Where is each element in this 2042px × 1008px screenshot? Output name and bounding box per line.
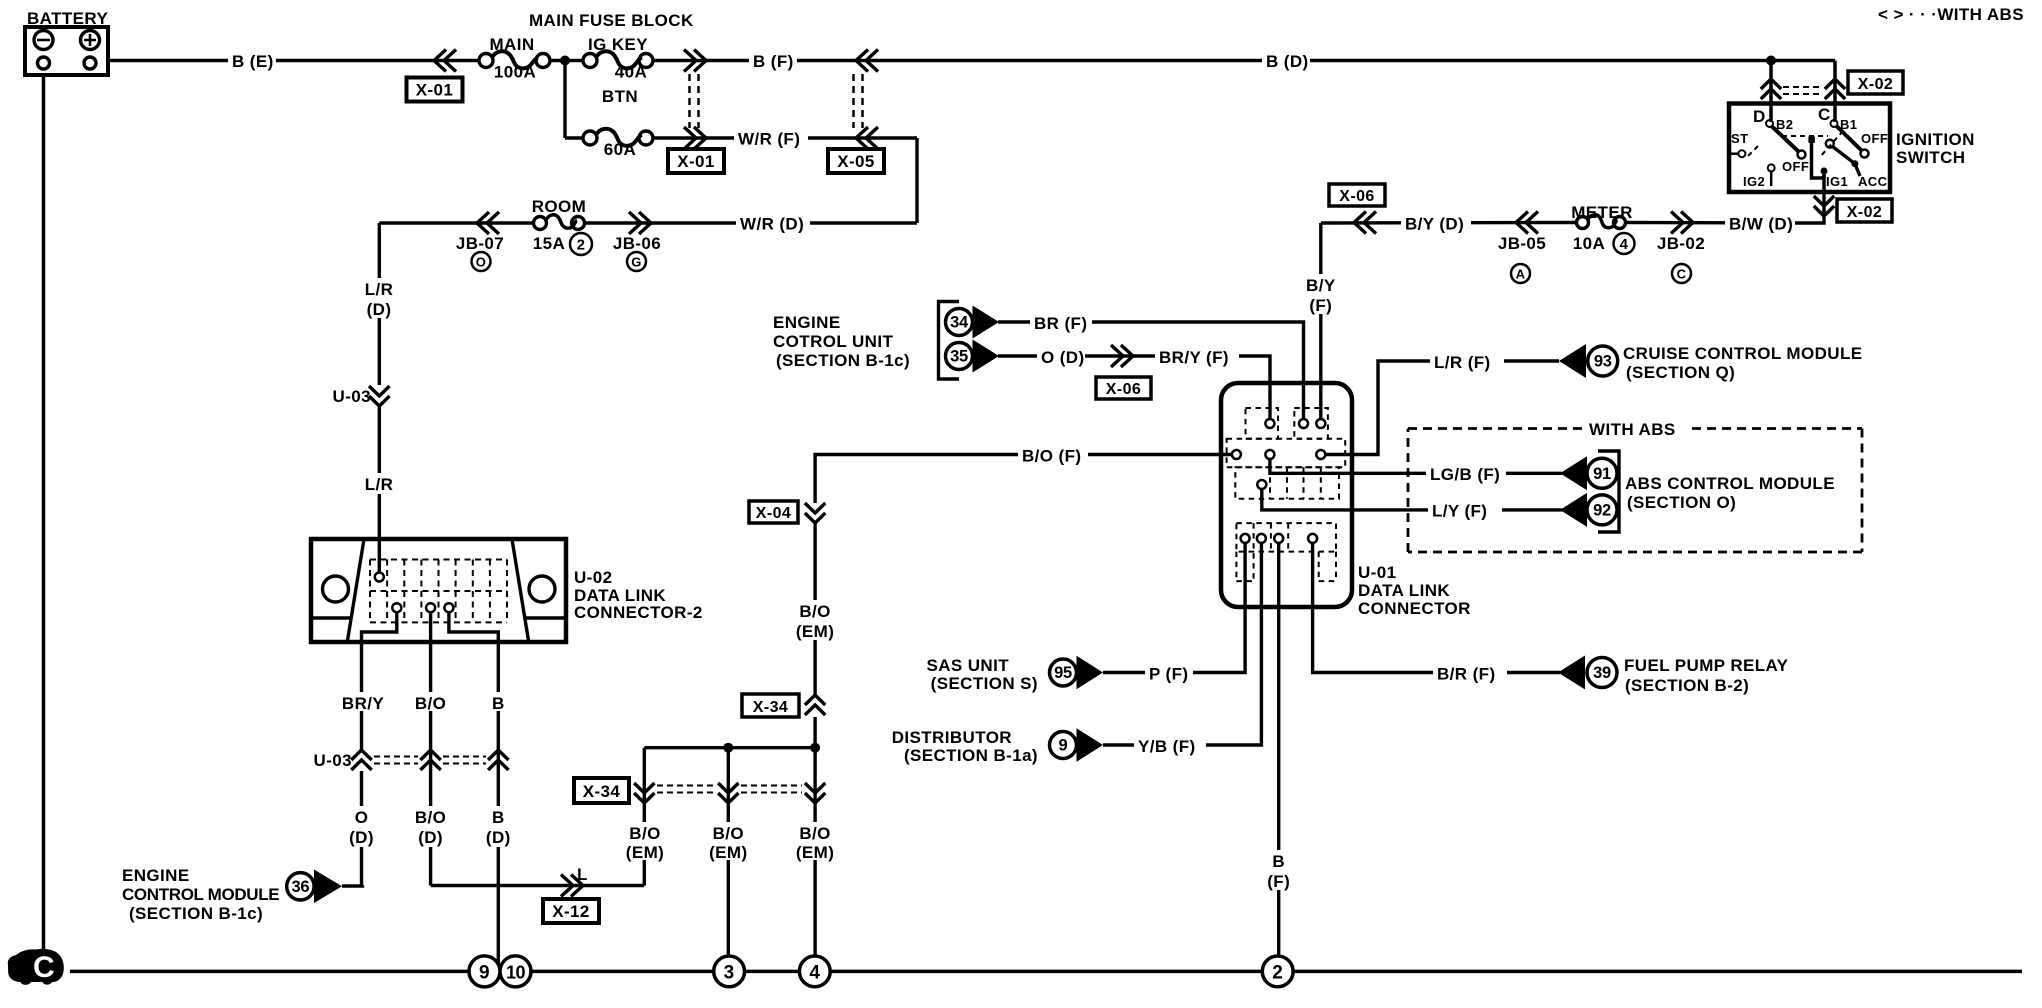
junction node B(D)	[1766, 56, 1776, 66]
svg-text:B: B	[492, 808, 505, 827]
engine cotrol unit labels	[773, 313, 910, 370]
svg-text:(EM): (EM)	[626, 843, 664, 862]
svg-text:40A: 40A	[615, 63, 647, 82]
connector chevron X-04	[802, 503, 828, 523]
svg-text:U-03: U-03	[314, 751, 352, 770]
connector U-02 data link connector-2	[311, 539, 566, 642]
svg-text:L/R: L/R	[365, 475, 394, 494]
svg-text:(SECTION O): (SECTION O)	[1627, 493, 1736, 512]
svg-text:X-34: X-34	[583, 782, 621, 801]
svg-text:IG1: IG1	[1826, 174, 1848, 189]
svg-text:D: D	[1753, 107, 1766, 126]
svg-text:(F): (F)	[1267, 872, 1290, 891]
wire labels O(D) B/O(D) B(D)	[348, 806, 513, 847]
svg-text:34: 34	[950, 314, 969, 332]
U-02 pin B/O	[426, 603, 435, 612]
svg-text:X-01: X-01	[677, 152, 715, 171]
wire L/Y(F)	[1262, 489, 1562, 510]
svg-text:Y/B (F): Y/B (F)	[1138, 737, 1196, 756]
U-02 pin L/R	[378, 539, 381, 572]
wire B(F)/B(D) row to ignition switch	[653, 59, 1835, 62]
label box X-02 upper	[1848, 71, 1903, 94]
svg-text:WITH ABS: WITH ABS	[1589, 420, 1676, 439]
connector chevron X-12	[561, 875, 583, 897]
U-03 dashed links	[374, 757, 486, 764]
connector chevron JB-02	[1671, 212, 1693, 234]
wire B/W corner up to ignition	[1795, 192, 1824, 223]
svg-text:39: 39	[1593, 664, 1611, 682]
wire B(E) battery to main fuse block	[108, 59, 480, 62]
connector chevron X-02 top left	[1761, 79, 1781, 99]
label box X-06 lower	[1096, 377, 1151, 399]
svg-text:ACC: ACC	[1858, 174, 1888, 189]
connector arrow 36 engine control module	[287, 870, 342, 904]
junction node 4	[810, 743, 820, 753]
svg-text:MAIN FUSE BLOCK: MAIN FUSE BLOCK	[529, 11, 694, 30]
wire B column	[497, 642, 500, 970]
with abs dashed box	[1408, 429, 1862, 553]
svg-text:B/O: B/O	[799, 602, 830, 621]
wire label B/O (EM) upper	[796, 600, 834, 641]
fuse IG KEY 40A	[583, 35, 653, 82]
svg-text:9: 9	[479, 963, 490, 984]
circled letter G	[627, 252, 646, 271]
svg-text:U-03: U-03	[333, 387, 371, 406]
wire label B (F)	[749, 50, 797, 71]
svg-text:X-06: X-06	[1339, 188, 1374, 205]
svg-text:DISTRIBUTOR: DISTRIBUTOR	[892, 728, 1012, 747]
label box X-34 lower	[574, 778, 629, 803]
svg-text:(D): (D)	[349, 828, 374, 847]
wire W/R(D) row	[379, 221, 533, 224]
svg-text:B: B	[492, 694, 505, 713]
svg-text:JB-07: JB-07	[456, 234, 504, 253]
svg-text:(SECTION B-2): (SECTION B-2)	[1625, 676, 1749, 695]
connector U-01 data link connector	[1221, 383, 1352, 607]
svg-text:9: 9	[1059, 737, 1068, 755]
svg-text:3: 3	[724, 963, 735, 984]
svg-text:O (D): O (D)	[1041, 348, 1085, 367]
svg-text:4: 4	[1620, 236, 1629, 253]
U-02 labels	[574, 568, 703, 622]
svg-text:BR (F): BR (F)	[1034, 314, 1087, 333]
svg-text:U-01: U-01	[1358, 563, 1396, 582]
svg-text:L/R (F): L/R (F)	[1434, 353, 1491, 372]
U-01 dashed cells	[1227, 408, 1346, 581]
U-02 pin B	[444, 603, 453, 612]
battery	[25, 9, 108, 75]
svg-text:ENGINE: ENGINE	[122, 866, 190, 885]
label box X-12	[543, 899, 599, 923]
wire BR/Y column	[360, 642, 363, 886]
ground circle 9	[469, 956, 500, 987]
svg-text:B/Y: B/Y	[1306, 276, 1336, 295]
U-02 pin BR/Y	[392, 603, 401, 612]
svg-text:L/R: L/R	[365, 280, 394, 299]
svg-text:92: 92	[1593, 502, 1611, 520]
U-01 labels	[1358, 563, 1471, 618]
wire L/R(D) column	[378, 223, 381, 539]
fuse ROOM 15A	[532, 197, 586, 230]
svg-text:(SECTION S): (SECTION S)	[931, 674, 1038, 693]
svg-text:(EM): (EM)	[709, 843, 747, 862]
svg-text:36: 36	[292, 878, 310, 896]
svg-text:ST: ST	[1731, 131, 1748, 146]
svg-text:2: 2	[577, 237, 586, 254]
connector chevron on W/R(F) left	[684, 127, 706, 149]
svg-text:B (E): B (E)	[232, 52, 274, 71]
label box X-05	[828, 149, 884, 173]
svg-text:B/O: B/O	[799, 824, 830, 843]
svg-text:ROOM: ROOM	[532, 197, 586, 216]
svg-text:60A: 60A	[604, 140, 636, 159]
svg-text:OFF: OFF	[1782, 159, 1809, 174]
svg-text:B2: B2	[1776, 117, 1793, 132]
svg-text:FUEL PUMP RELAY: FUEL PUMP RELAY	[1624, 656, 1789, 675]
svg-text:(F): (F)	[1309, 296, 1332, 315]
svg-text:L/Y (F): L/Y (F)	[1432, 502, 1487, 521]
wire label L/R	[360, 473, 400, 494]
ignition switch box	[1729, 104, 1890, 193]
connector chevron X-05 (on B(F))	[856, 50, 878, 72]
X-02 dashed links	[1783, 87, 1822, 94]
svg-text:G: G	[631, 255, 642, 270]
svg-text:(D): (D)	[418, 828, 443, 847]
wire label W/R (D)	[736, 212, 810, 234]
ground circle 2	[1262, 956, 1293, 987]
svg-text:4: 4	[809, 963, 820, 984]
svg-text:B/R (F): B/R (F)	[1437, 665, 1496, 684]
wire label B/Y (D)	[1401, 212, 1471, 234]
junction node 3	[723, 743, 733, 753]
svg-text:93: 93	[1594, 353, 1612, 371]
wire label B (E)	[228, 50, 276, 71]
svg-text:(EM): (EM)	[796, 622, 834, 641]
svg-text:L: L	[577, 865, 588, 884]
wire junction row horizontal	[644, 746, 815, 749]
svg-text:COTROL UNIT: COTROL UNIT	[773, 332, 893, 351]
wire Y/B(F) distributor	[1103, 543, 1261, 745]
connector U-03 upper chevron	[333, 385, 392, 407]
junction node	[560, 56, 570, 66]
svg-text:C: C	[1677, 267, 1687, 282]
U-01 pin third row	[1257, 480, 1266, 489]
connector chevron on W/R(F) right	[856, 127, 878, 149]
U-01 pins top row	[1265, 419, 1274, 428]
svg-text:B/O: B/O	[415, 694, 446, 713]
ground circle 3	[714, 956, 745, 987]
svg-text:B/O: B/O	[415, 808, 446, 827]
svg-text:95: 95	[1054, 664, 1072, 682]
X-05 dashed connector pair	[852, 74, 855, 128]
svg-text:X-02: X-02	[1858, 76, 1893, 93]
wire label B/W (D)	[1725, 212, 1795, 234]
connector arrow 93 cruise	[1559, 344, 1618, 378]
svg-text:B (D): B (D)	[1266, 52, 1309, 71]
svg-text:10: 10	[506, 963, 526, 983]
svg-text:P (F): P (F)	[1149, 665, 1188, 684]
wire P(F) sas	[1103, 543, 1245, 673]
svg-text:35: 35	[950, 348, 968, 366]
svg-text:CRUISE CONTROL MODULE: CRUISE CONTROL MODULE	[1623, 344, 1862, 363]
wire LG/B(F)	[1270, 459, 1562, 473]
label box X-01 left	[407, 78, 463, 102]
connector arrow 9 distributor	[1050, 728, 1104, 761]
svg-text:C: C	[1818, 105, 1831, 124]
wire W/R corner vertical	[915, 138, 918, 223]
fuse METER 10A	[1571, 203, 1633, 229]
svg-text:100A: 100A	[494, 63, 536, 82]
connector chevron X-02 top right	[1825, 79, 1845, 99]
connector chevron X-06 on B/Y(D)	[1354, 212, 1376, 234]
wire B/O(F) row	[815, 455, 1232, 457]
wire O(D) to ECM	[342, 884, 363, 888]
svg-text:B/O (F): B/O (F)	[1022, 447, 1081, 466]
svg-text:X-02: X-02	[1847, 204, 1882, 221]
wire B/R(F) fuel pump	[1313, 543, 1560, 673]
circled number 2	[570, 233, 592, 255]
svg-text:U-02: U-02	[574, 568, 612, 587]
ground bus line	[70, 970, 2022, 974]
svg-text:2: 2	[1272, 963, 1283, 984]
wire L vertical to junction row	[643, 748, 646, 886]
wire B/O(EM) to ground 3	[727, 748, 730, 956]
wire between fuses	[550, 59, 583, 62]
svg-text:(EM): (EM)	[796, 843, 834, 862]
svg-text:A: A	[1516, 267, 1526, 282]
svg-text:(SECTION B-1c): (SECTION B-1c)	[129, 904, 263, 923]
label box X-02 lower	[1837, 199, 1892, 222]
svg-text:X-01: X-01	[416, 81, 454, 100]
wire B/Y(D) meter row	[1321, 221, 1577, 225]
svg-text:ABS CONTROL MODULE: ABS CONTROL MODULE	[1625, 474, 1835, 493]
svg-text:CONTROL MODULE: CONTROL MODULE	[122, 885, 279, 904]
svg-text:B (F): B (F)	[753, 52, 794, 71]
wire BTN branch vertical	[563, 61, 566, 139]
connector chevron X-01 right (on B(F))	[684, 50, 706, 72]
svg-text:BTN: BTN	[602, 87, 638, 106]
svg-text:B/W (D): B/W (D)	[1729, 215, 1793, 234]
U-01 pins bottom row	[1241, 534, 1250, 543]
engine control module labels	[122, 866, 279, 923]
wire B/O column	[429, 642, 432, 886]
svg-text:10A: 10A	[1573, 234, 1605, 253]
svg-text:C: C	[33, 951, 55, 984]
svg-text:O: O	[355, 808, 369, 827]
svg-text:ENGINE: ENGINE	[773, 313, 841, 332]
connector chevron X-01 on B(E)	[434, 50, 456, 72]
wire L/R(F)	[1325, 361, 1559, 455]
svg-text:< > · · ·WITH ABS: < > · · ·WITH ABS	[1878, 5, 2024, 24]
connector chevron JB-05	[1516, 212, 1538, 234]
wire label B (D)	[1262, 50, 1310, 71]
svg-text:(D): (D)	[486, 828, 511, 847]
connector U-03 lower row chevrons	[314, 749, 509, 771]
wire label W/R (F)	[734, 127, 808, 149]
fuse MAIN 100A	[479, 35, 550, 82]
svg-text:(SECTION B-1a): (SECTION B-1a)	[904, 746, 1038, 765]
svg-text:SWITCH: SWITCH	[1896, 148, 1965, 167]
svg-text:X-34: X-34	[753, 699, 788, 716]
label box X-06 upper	[1329, 184, 1385, 206]
label box X-34 upper	[742, 694, 799, 717]
bracket 91/92	[1598, 451, 1619, 532]
wire B/Y column from room row	[1319, 223, 1322, 419]
svg-text:CONNECTOR-2: CONNECTOR-2	[574, 603, 703, 622]
connector X-34 lower chevrons	[634, 783, 825, 803]
wire BTN row	[565, 136, 583, 139]
svg-text:MAIN: MAIN	[489, 35, 534, 54]
connector arrow 34	[946, 306, 1000, 339]
wire to ignition D terminal	[1769, 61, 1773, 123]
connector arrow 35	[946, 340, 1000, 373]
svg-text:(D): (D)	[367, 300, 392, 319]
wire L (B/O to X-12)	[431, 884, 645, 887]
svg-text:B/Y (D): B/Y (D)	[1405, 215, 1464, 234]
connector chevron X-06 on O(D)	[1111, 345, 1133, 367]
connector chevron JB-06 on W/R(D)	[629, 212, 651, 234]
connector arrow 92 abs	[1560, 493, 1617, 527]
wire label L/R (D)	[360, 278, 400, 319]
svg-text:JB-06: JB-06	[613, 234, 661, 253]
svg-text:B/O: B/O	[713, 824, 744, 843]
wire labels B/O (EM) x3	[626, 822, 835, 862]
X-01 dashed connector pair	[688, 74, 691, 128]
connector chevron X-02 lower	[1814, 196, 1834, 216]
svg-text:IG KEY: IG KEY	[588, 35, 648, 54]
svg-text:W/R (D): W/R (D)	[740, 215, 804, 234]
fuse BTN 60A	[583, 87, 653, 159]
svg-text:(SECTION B-1c): (SECTION B-1c)	[776, 351, 910, 370]
wire BR(F) row	[998, 322, 1304, 419]
circled letter O	[472, 252, 491, 271]
bracket for 34/35	[939, 302, 960, 380]
wire labels BR/Y B/O B	[338, 692, 509, 713]
X-34 dashed links	[657, 786, 802, 793]
svg-text:JB-05: JB-05	[1498, 234, 1546, 253]
U-02 dashed pin grid	[370, 560, 507, 623]
svg-text:IG2: IG2	[1743, 174, 1765, 189]
wire to ignition C terminal	[1833, 61, 1837, 123]
svg-text:LG/B (F): LG/B (F)	[1430, 465, 1500, 484]
svg-text:DATA LINK: DATA LINK	[1358, 581, 1450, 600]
svg-text:B/O: B/O	[629, 824, 660, 843]
ground circle 4	[799, 956, 830, 987]
wire B/O(EM) to ground 4	[813, 748, 816, 956]
label box X-01 lower	[668, 149, 724, 173]
svg-text:91: 91	[1593, 465, 1611, 483]
svg-text:X-12: X-12	[552, 902, 590, 921]
connector X-34 upper chevron	[803, 695, 828, 717]
svg-text:CONNECTOR: CONNECTOR	[1358, 599, 1471, 618]
svg-text:METER: METER	[1571, 203, 1633, 222]
svg-text:SAS UNIT: SAS UNIT	[926, 656, 1009, 675]
wire battery negative down to ground	[42, 75, 46, 971]
wire O(D)/BR/Y(F) row	[998, 356, 1270, 419]
svg-text:W/R (F): W/R (F)	[738, 130, 800, 149]
svg-text:15A: 15A	[533, 234, 565, 253]
svg-text:X-04: X-04	[756, 505, 791, 522]
connector arrow 91 abs	[1560, 456, 1617, 490]
svg-text:BATTERY: BATTERY	[27, 9, 108, 28]
svg-text:JB-02: JB-02	[1657, 234, 1705, 253]
svg-text:OFF: OFF	[1861, 131, 1888, 146]
wire B/O(EM) rising column	[813, 455, 816, 748]
wire W/R(F) row	[653, 136, 917, 139]
ground circle 10	[500, 956, 531, 987]
svg-text:O: O	[476, 255, 487, 270]
svg-text:X-05: X-05	[837, 152, 875, 171]
connector arrow 39 fuel pump relay	[1558, 656, 1617, 690]
svg-text:BR/Y (F): BR/Y (F)	[1159, 348, 1229, 367]
svg-text:B: B	[1272, 852, 1285, 871]
svg-text:IGNITION: IGNITION	[1896, 130, 1975, 149]
ignition switch internals	[1729, 105, 1888, 192]
svg-text:X-06: X-06	[1106, 381, 1141, 398]
connector arrow 95 sas	[1050, 656, 1104, 689]
U-01 pins second row	[1232, 450, 1241, 459]
connector chevron JB-07 on W/R(D)	[477, 212, 499, 234]
svg-text:(SECTION Q): (SECTION Q)	[1626, 363, 1735, 382]
svg-text:BR/Y: BR/Y	[342, 694, 384, 713]
label box X-04	[749, 501, 798, 523]
ground symbol (body ground, bottom left)	[8, 949, 64, 985]
wire B(F) to ground 2	[1277, 543, 1280, 956]
